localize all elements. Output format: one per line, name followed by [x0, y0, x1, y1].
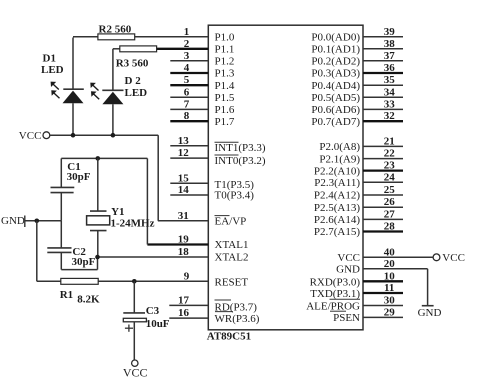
- pin label P0.5(AD5): [311, 92, 360, 104]
- overline INT0: [215, 154, 239, 156]
- svg-text:P2.1(A9): P2.1(A9): [319, 153, 360, 165]
- svg-text:P0.5(AD5): P0.5(AD5): [311, 92, 360, 104]
- svg-text:P1.6: P1.6: [215, 104, 235, 116]
- pin 11 wire: [363, 292, 403, 294]
- pin 4 wire: [170, 72, 208, 74]
- capacitor C1: [51, 158, 75, 220]
- pin 9 number: [184, 270, 190, 282]
- svg-text:30pF: 30pF: [72, 256, 96, 268]
- pin 9 wire: [98, 280, 208, 282]
- svg-text:RESET: RESET: [215, 277, 249, 289]
- svg-text:20: 20: [384, 258, 396, 270]
- pin label EA/VP: [215, 216, 247, 228]
- pin label P0.2(AD2): [311, 56, 360, 68]
- svg-text:C3: C3: [146, 305, 160, 317]
- pin label XTAL2: [215, 252, 249, 264]
- LED D2: [102, 49, 123, 135]
- svg-text:EA/VP: EA/VP: [215, 216, 247, 228]
- pin 1 wire: [135, 36, 209, 38]
- C1 label: [67, 161, 91, 183]
- svg-text:11: 11: [384, 282, 394, 294]
- pin 20 wire: [363, 269, 428, 306]
- svg-text:24: 24: [384, 171, 396, 183]
- junction GND/R1 branch: [35, 219, 40, 224]
- pin 23 number: [384, 160, 396, 172]
- svg-text:TXD(P3.1): TXD(P3.1): [310, 288, 360, 300]
- pin 14 number: [178, 184, 190, 196]
- svg-text:27: 27: [384, 208, 396, 220]
- junction Y1 top: [96, 156, 101, 161]
- ground symbol (right): [418, 306, 442, 319]
- overline RD: [215, 299, 232, 301]
- pin 12 wire: [170, 157, 208, 159]
- svg-text:22: 22: [384, 148, 396, 160]
- wire crystal top (C1/Y1/XTAL1): [61, 158, 147, 244]
- pin 25 number: [384, 184, 396, 196]
- pin 26 wire: [363, 206, 403, 208]
- svg-text:5: 5: [184, 74, 190, 86]
- pin label P1.1: [215, 44, 235, 56]
- svg-text:GND: GND: [418, 307, 442, 319]
- svg-text:10uF: 10uF: [146, 318, 170, 330]
- pin 13 number: [178, 135, 190, 147]
- pin 10 wire: [363, 280, 403, 282]
- ground terminal (left): [1, 215, 25, 227]
- pin 31 wire: [158, 220, 208, 222]
- pin 15 wire: [170, 182, 208, 184]
- pin 39 wire: [363, 36, 403, 38]
- pin label P0.7(AD7): [311, 116, 360, 128]
- svg-text:1: 1: [184, 26, 190, 38]
- svg-text:VCC: VCC: [337, 252, 360, 264]
- overline EA: [215, 215, 230, 217]
- svg-text:XTAL2: XTAL2: [215, 252, 249, 264]
- pin 3 wire: [170, 60, 208, 62]
- svg-text:AT89C51: AT89C51: [207, 331, 251, 343]
- resistor R3: [113, 46, 157, 52]
- svg-text:30pF: 30pF: [67, 171, 91, 183]
- pin 10 number: [384, 270, 396, 282]
- pin label P1.4: [215, 80, 235, 92]
- svg-text:32: 32: [384, 110, 396, 122]
- pin 24 number: [384, 171, 396, 183]
- wire GND to C1/C2 node: [26, 220, 62, 222]
- svg-text:1-24MHz: 1-24MHz: [111, 217, 155, 229]
- pin 22 wire: [363, 158, 403, 160]
- svg-text:R1: R1: [60, 289, 73, 301]
- pin label P2.6(A14): [314, 214, 360, 226]
- pin label INT1(P3.3): [215, 142, 266, 154]
- pin 8 number: [184, 110, 190, 122]
- svg-text:P0.7(AD7): P0.7(AD7): [311, 116, 360, 128]
- pin label P1.5: [215, 92, 235, 104]
- svg-text:40: 40: [384, 246, 396, 258]
- IC U1 AT89C51 body: [208, 25, 363, 330]
- pin label P1.0: [215, 32, 235, 44]
- svg-text:29: 29: [384, 306, 396, 318]
- pin 18 number: [178, 246, 190, 258]
- svg-text:36: 36: [384, 62, 396, 74]
- pin 7 wire: [170, 108, 208, 110]
- svg-text:P0.6(AD6): P0.6(AD6): [311, 104, 360, 116]
- pin label P1.6: [215, 104, 235, 116]
- pin 35 number: [384, 74, 396, 86]
- pin 4 number: [184, 62, 190, 74]
- svg-text:P0.4(AD4): P0.4(AD4): [311, 80, 360, 92]
- pin 5 wire: [170, 84, 208, 86]
- svg-text:P1.2: P1.2: [215, 56, 235, 68]
- capacitor C2: [47, 221, 97, 270]
- pin 15 number: [178, 172, 190, 184]
- crystal Y1: [87, 158, 110, 257]
- svg-text:VCC: VCC: [442, 252, 465, 264]
- svg-text:23: 23: [384, 160, 396, 172]
- pin 17 number: [178, 294, 190, 306]
- D1 emission arrows: [51, 82, 60, 99]
- svg-text:R3 560: R3 560: [116, 57, 149, 69]
- pin 19 wire: [147, 243, 208, 245]
- svg-text:4: 4: [184, 62, 190, 74]
- svg-text:18: 18: [178, 246, 190, 258]
- svg-text:P1.7: P1.7: [215, 116, 235, 128]
- svg-text:XTAL1: XTAL1: [215, 239, 249, 251]
- pin 25 wire: [363, 194, 403, 196]
- Y1 label: [111, 206, 155, 229]
- svg-text:9: 9: [184, 270, 190, 282]
- pin 12 number: [178, 147, 190, 159]
- junction XTAL2 node: [95, 255, 100, 260]
- pin 8 wire: [170, 120, 208, 122]
- pin 22 number: [384, 148, 396, 160]
- overline PROG: [330, 298, 361, 300]
- pin 29 number: [384, 306, 396, 318]
- VCC terminal (left): [19, 130, 50, 142]
- pin 34 number: [384, 86, 396, 98]
- svg-text:WR(P3.6): WR(P3.6): [215, 313, 260, 325]
- resistor R2: [73, 34, 135, 40]
- pin 2 number: [184, 38, 190, 50]
- pin label P0.4(AD4): [311, 80, 360, 92]
- pin label P0.1(AD1): [311, 44, 360, 56]
- junction RESET/C3: [132, 279, 137, 284]
- pin label ALE/PROG: [306, 301, 360, 313]
- svg-text:39: 39: [384, 26, 396, 38]
- svg-text:VCC: VCC: [19, 130, 42, 142]
- svg-text:VCC: VCC: [123, 365, 148, 379]
- pin 31 number: [178, 210, 189, 222]
- D2 label: [125, 75, 148, 99]
- R1 label: [60, 289, 100, 306]
- svg-text:19: 19: [178, 234, 190, 246]
- pin 7 number: [184, 98, 190, 110]
- pin 38 number: [384, 38, 396, 50]
- pin 16 wire: [169, 317, 208, 319]
- pin 35 wire: [363, 84, 403, 86]
- pin 16 number: [178, 307, 190, 319]
- pin 14 wire: [170, 194, 208, 196]
- pin 20 number: [384, 258, 396, 270]
- svg-text:30: 30: [384, 295, 396, 307]
- C2 label: [72, 246, 96, 268]
- pin 24 wire: [363, 181, 403, 183]
- pin 23 wire: [363, 169, 403, 171]
- pin 33 wire: [363, 108, 403, 110]
- svg-text:31: 31: [178, 210, 189, 222]
- pin 30 wire: [363, 305, 403, 307]
- svg-text:6: 6: [184, 86, 190, 98]
- svg-text:R2 560: R2 560: [99, 23, 132, 35]
- svg-text:RXD(P3.0): RXD(P3.0): [310, 277, 361, 289]
- pin 36 number: [384, 62, 396, 74]
- D1 label: [41, 53, 64, 77]
- overline WR: [215, 311, 233, 313]
- capacitor C3 (electrolytic): [123, 281, 146, 360]
- pin label RXD(P3.0): [310, 277, 361, 289]
- VCC terminal (bottom): [123, 360, 148, 379]
- pin 27 number: [384, 208, 396, 220]
- junction D1/VCC rail: [71, 133, 76, 138]
- svg-text:PSEN: PSEN: [333, 312, 360, 324]
- svg-text:P0.0(AD0): P0.0(AD0): [311, 32, 360, 44]
- overline INT1: [215, 141, 239, 143]
- pin 32 wire: [363, 120, 403, 122]
- pin 28 number: [384, 221, 396, 233]
- pin label RD(P3.7): [215, 302, 258, 314]
- svg-text:INT1(P3.3): INT1(P3.3): [215, 142, 266, 154]
- svg-text:3: 3: [184, 50, 190, 62]
- pin 33 number: [384, 98, 396, 110]
- pin label P2.4(A12): [314, 190, 360, 202]
- junction D2/VCC rail: [111, 133, 116, 138]
- pin 3 number: [184, 50, 190, 62]
- pin 1 number: [184, 26, 190, 38]
- svg-text:28: 28: [384, 221, 396, 233]
- pin 28 wire: [363, 230, 403, 232]
- pin 2 wire: [157, 48, 209, 50]
- pin 6 wire: [170, 96, 208, 98]
- pin label P2.5(A13): [314, 202, 360, 214]
- pin label PSEN: [333, 312, 360, 324]
- svg-text:P1.1: P1.1: [215, 44, 235, 56]
- pin label P2.7(A15): [314, 226, 360, 238]
- pin 38 wire: [363, 48, 403, 50]
- pin 40 wire: [363, 256, 433, 258]
- svg-text:12: 12: [178, 147, 190, 159]
- svg-text:P0.2(AD2): P0.2(AD2): [311, 56, 360, 68]
- svg-text:LED: LED: [41, 64, 64, 76]
- pin 18 wire: [98, 256, 209, 258]
- svg-text:P2.6(A14): P2.6(A14): [314, 214, 360, 226]
- pin label P0.0(AD0): [311, 32, 360, 44]
- pin 21 number: [384, 135, 395, 147]
- pin 40 number: [384, 246, 396, 258]
- svg-text:P2.4(A12): P2.4(A12): [314, 190, 360, 202]
- svg-text:P1.0: P1.0: [215, 32, 235, 44]
- svg-text:P2.2(A10): P2.2(A10): [314, 165, 360, 177]
- pin label P2.1(A9): [319, 153, 360, 165]
- IC U1 part label AT89C51: [207, 331, 251, 343]
- svg-text:LED: LED: [125, 87, 148, 99]
- svg-text:P0.1(AD1): P0.1(AD1): [311, 44, 360, 56]
- VCC terminal (right): [433, 252, 465, 264]
- svg-text:P1.4: P1.4: [215, 80, 235, 92]
- pin 5 number: [184, 74, 190, 86]
- pin label VCC: [337, 252, 360, 264]
- svg-text:D1: D1: [43, 53, 56, 65]
- R2 value label: [99, 23, 132, 35]
- svg-text:INT0(P3.2): INT0(P3.2): [215, 155, 266, 167]
- pin 27 wire: [363, 218, 403, 220]
- pin label P2.0(A8): [319, 141, 360, 153]
- svg-text:26: 26: [384, 196, 396, 208]
- pin label T0(P3.4): [215, 189, 255, 201]
- svg-text:34: 34: [384, 86, 396, 98]
- svg-text:35: 35: [384, 74, 396, 86]
- pin label INT0(P3.2): [215, 155, 266, 167]
- pin label P1.3: [215, 68, 235, 80]
- svg-text:38: 38: [384, 38, 396, 50]
- pin label XTAL1: [215, 239, 249, 251]
- svg-text:10: 10: [384, 270, 396, 282]
- pin label P0.3(AD3): [311, 68, 360, 80]
- pin label GND: [336, 264, 360, 276]
- svg-text:16: 16: [178, 307, 190, 319]
- svg-text:P1.5: P1.5: [215, 92, 235, 104]
- svg-text:15: 15: [178, 172, 190, 184]
- pin 39 number: [384, 26, 396, 38]
- svg-text:25: 25: [384, 184, 396, 196]
- svg-text:P2.7(A15): P2.7(A15): [314, 226, 360, 238]
- svg-text:2: 2: [184, 38, 190, 50]
- pin label P0.6(AD6): [311, 104, 360, 116]
- svg-text:P1.3: P1.3: [215, 68, 235, 80]
- pin 37 number: [384, 50, 396, 62]
- pin 26 number: [384, 196, 396, 208]
- svg-text:D 2: D 2: [125, 75, 142, 87]
- pin label T1(P3.5): [215, 179, 255, 191]
- pin 34 wire: [363, 96, 403, 98]
- svg-text:P0.3(AD3): P0.3(AD3): [311, 68, 360, 80]
- svg-text:Y1: Y1: [111, 206, 124, 218]
- D2 emission arrows: [90, 83, 99, 100]
- pin 30 number: [384, 295, 396, 307]
- wire VCC rail to EA/VP: [50, 135, 158, 221]
- pin label WR(P3.6): [215, 313, 260, 325]
- svg-text:17: 17: [178, 294, 190, 306]
- pin 17 wire: [169, 304, 208, 306]
- pin label RESET: [215, 277, 249, 289]
- overline PSEN: [330, 310, 346, 312]
- svg-text:33: 33: [384, 98, 396, 110]
- svg-text:14: 14: [178, 184, 190, 196]
- pin label P1.2: [215, 56, 235, 68]
- pin 11 number: [384, 282, 394, 294]
- svg-text:GND: GND: [336, 264, 360, 276]
- svg-text:T0(P3.4): T0(P3.4): [215, 189, 255, 201]
- pin label P1.7: [215, 116, 235, 128]
- pin 37 wire: [363, 60, 403, 62]
- pin label P2.2(A10): [314, 165, 360, 177]
- pin label P2.3(A11): [314, 177, 360, 189]
- pin 6 number: [184, 86, 190, 98]
- pin 13 wire: [170, 145, 208, 147]
- C3 label: [146, 305, 170, 330]
- pin 21 wire: [363, 145, 403, 147]
- svg-text:8: 8: [184, 110, 190, 122]
- pin 36 wire: [363, 72, 403, 74]
- svg-text:P2.3(A11): P2.3(A11): [314, 177, 360, 189]
- C3 plus sign: [125, 325, 133, 332]
- svg-text:P2.0(A8): P2.0(A8): [319, 141, 360, 153]
- svg-text:8.2K: 8.2K: [77, 294, 100, 306]
- svg-text:21: 21: [384, 135, 395, 147]
- svg-text:37: 37: [384, 50, 396, 62]
- R3 value label: [116, 57, 149, 69]
- svg-text:P2.5(A13): P2.5(A13): [314, 202, 360, 214]
- pin 29 wire: [363, 316, 403, 318]
- pin 32 number: [384, 110, 396, 122]
- svg-text:7: 7: [184, 98, 190, 110]
- pin label TXD(P3.1): [310, 288, 360, 300]
- pin 19 number: [178, 234, 190, 246]
- LED D1: [63, 38, 84, 136]
- resistor R1: [37, 221, 98, 284]
- svg-text:13: 13: [178, 135, 190, 147]
- svg-text:GND: GND: [1, 215, 25, 227]
